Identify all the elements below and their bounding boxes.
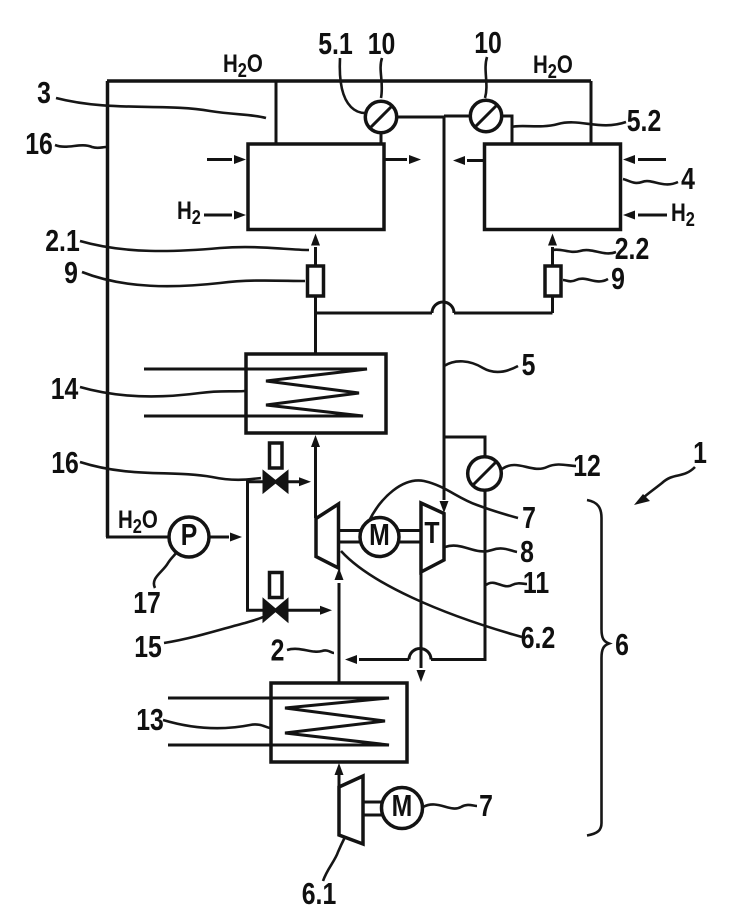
- wire bottom return hop over exhaust: [409, 649, 431, 660]
- turbine 8: [421, 503, 444, 572]
- wire right stack bottom to sensor9R: [551, 294, 554, 313]
- motor M 7 (center): [360, 517, 399, 556]
- wire sensor9L to branch node: [314, 294, 317, 354]
- sensor 9 left: [308, 266, 324, 296]
- arrow H2 inlet left stack: [204, 214, 232, 217]
- wire line 5 vertical: [443, 116, 446, 500]
- svg-text:4: 4: [681, 161, 695, 195]
- svg-text:6: 6: [615, 627, 629, 661]
- svg-text:8: 8: [520, 534, 534, 568]
- svg-text:M: M: [392, 788, 413, 822]
- arrowhead line5 into turbine: [440, 501, 449, 513]
- wire H2O header top: [107, 79, 591, 83]
- svg-text:14: 14: [51, 371, 79, 405]
- wire H2O drop to left stack: [275, 81, 278, 143]
- wire H2O drop to right stack: [590, 81, 593, 143]
- valve 10 crossed circle: [470, 100, 501, 131]
- fuel cell stack 4: [485, 144, 621, 230]
- arrowhead into left stack bottom: [311, 234, 320, 246]
- arrow left stack outlet: [385, 158, 407, 161]
- brace 6: [587, 500, 609, 836]
- arrowhead exhaust out: [417, 670, 426, 682]
- svg-text:M: M: [369, 517, 390, 551]
- svg-text:12: 12: [573, 448, 601, 482]
- arrow right stack outlet: [467, 159, 484, 162]
- wire valve16 outlet: [288, 480, 299, 483]
- svg-text:6.2: 6.2: [521, 620, 555, 654]
- wire valve15 outlet: [288, 609, 320, 612]
- svg-text:13: 13: [136, 702, 164, 736]
- svg-text:17: 17: [133, 585, 161, 619]
- wire HX13 top riser: [338, 658, 341, 684]
- arrowhead valve15 outlet: [320, 606, 332, 615]
- arrow air inlet left stack: [207, 158, 232, 161]
- wire compressor 6.1 to HX13: [338, 775, 341, 787]
- wire branch line right part: [454, 312, 553, 315]
- svg-text:P: P: [181, 517, 198, 551]
- svg-text:5: 5: [522, 347, 536, 381]
- wire valve10 to right stack top: [501, 116, 512, 143]
- arrowhead return into node 2: [345, 655, 357, 664]
- heat exchanger 14: [144, 354, 386, 433]
- arrow H2 inlet right stack: [638, 214, 667, 217]
- arrowhead into HX13 bottom: [335, 763, 344, 775]
- injection valve 16: [264, 443, 287, 491]
- svg-text:2: 2: [271, 633, 285, 667]
- wire valve5.1 to left stack top: [380, 132, 383, 143]
- wire HX14 riser to compressor: [314, 446, 317, 518]
- svg-text:15: 15: [134, 629, 162, 663]
- svg-text:11: 11: [523, 565, 549, 599]
- svg-text:5.1: 5.1: [318, 26, 352, 60]
- wire branch hop over line 5: [432, 302, 454, 313]
- wire manifold to valve 15: [246, 609, 263, 612]
- arrow air inlet right stack: [638, 158, 666, 161]
- arrowhead into right stack bottom: [548, 234, 557, 246]
- wire node5 to valve10: [444, 115, 470, 118]
- arrowhead into HX14 bottom: [311, 435, 320, 447]
- shaft motor-turbine: [399, 531, 421, 543]
- svg-text:10: 10: [474, 25, 502, 59]
- svg-text:5.2: 5.2: [627, 103, 661, 137]
- arrowhead valve16 outlet: [299, 477, 311, 486]
- svg-text:16: 16: [51, 445, 79, 479]
- svg-text:2.1: 2.1: [45, 223, 79, 257]
- wire pump suction: [106, 536, 170, 539]
- wire air riser node2 to compressor 6.2: [338, 583, 341, 683]
- wire manifold to valve 16: [246, 480, 263, 483]
- compressor 6.1: [339, 776, 363, 844]
- svg-text:T: T: [424, 515, 439, 549]
- wire anode feed right stack: [551, 247, 554, 265]
- wire left supply line 16: [106, 81, 110, 537]
- wire injection manifold vertical: [246, 481, 249, 610]
- wire valve5.1 to node5: [396, 116, 444, 119]
- arrowhead pump discharge: [230, 533, 242, 542]
- svg-text:7: 7: [522, 500, 536, 534]
- pump P 17: [169, 517, 209, 557]
- motor M 7 (bottom): [382, 788, 423, 829]
- wire pump discharge: [209, 536, 229, 539]
- svg-text:10: 10: [368, 26, 396, 60]
- svg-text:1: 1: [693, 435, 707, 469]
- wire line 11 down from valve 12: [431, 490, 485, 660]
- valve 5.1 crossed circle: [365, 101, 396, 132]
- arrowhead into compressor 6.2: [335, 568, 344, 580]
- shaft compressor 6.1 motor: [363, 802, 382, 815]
- sensor 9 right: [545, 266, 561, 296]
- svg-text:16: 16: [25, 126, 53, 160]
- compressor 6.2: [316, 504, 339, 568]
- svg-text:9: 9: [611, 261, 625, 295]
- wire branch to valve 12: [444, 437, 485, 457]
- wire turbine exhaust: [420, 572, 423, 668]
- svg-text:7: 7: [479, 788, 493, 822]
- wire anode feed left stack: [314, 247, 317, 265]
- wire branch line 2.1-2.2 left part: [316, 312, 433, 315]
- shaft compressor-motor: [339, 531, 361, 543]
- svg-text:9: 9: [64, 255, 78, 289]
- wire bottom return to node 2: [359, 658, 409, 661]
- svg-text:6.1: 6.1: [302, 876, 336, 910]
- heat exchanger 13: [168, 683, 407, 762]
- valve 12 crossed circle: [468, 457, 502, 491]
- injection valve 15: [264, 573, 287, 621]
- fuel cell stack 3: [248, 144, 384, 230]
- svg-text:3: 3: [37, 75, 51, 109]
